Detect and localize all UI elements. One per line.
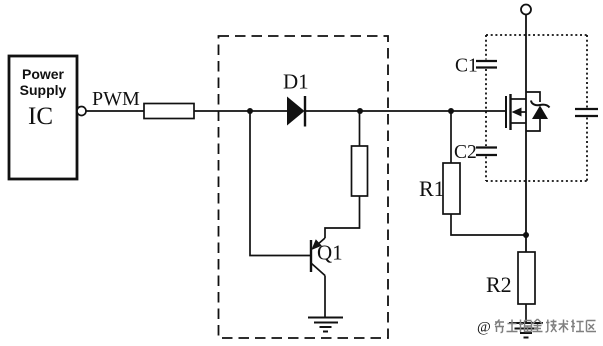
tu: [507, 320, 518, 332]
resistor (emitter pull, unlabeled): [352, 146, 368, 196]
wire R1 bottom to source node: [451, 214, 526, 235]
she: [571, 320, 584, 333]
watermark: [477, 319, 596, 336]
resistor R2: [518, 252, 535, 304]
terminal circle (drain supply): [521, 5, 531, 15]
transistor Q1 (PNP): [311, 238, 325, 276]
capacitor C1 (gate-drain): [476, 61, 497, 68]
ground (R2 bottom): [509, 323, 543, 338]
xi: [495, 320, 504, 333]
shu: [559, 320, 569, 333]
svg-text:R2: R2: [486, 272, 512, 297]
jue: [519, 320, 532, 333]
svg-text:@: @: [477, 320, 491, 336]
ground (Q1 collector): [308, 318, 343, 332]
svg-text:Supply: Supply: [20, 82, 67, 98]
wire resistor bottom to Q1 emitter: [325, 196, 360, 238]
jin: [533, 319, 543, 332]
qu: [587, 321, 597, 332]
node junction at emitter resistor branch: [357, 108, 363, 114]
body diode of MOSFET: [526, 92, 550, 131]
resistor R1: [443, 163, 460, 214]
wire junction down to resistor: [359, 111, 361, 146]
capacitor C2 (gate-source): [476, 148, 497, 156]
wire junction to R1: [450, 111, 452, 163]
wire main vertical drain-source: [525, 15, 527, 253]
resistor (PWM series, unlabeled): [144, 104, 194, 119]
wire Q1 collector to ground: [324, 276, 326, 318]
svg-text:R1: R1: [419, 176, 445, 201]
ji: [546, 320, 557, 333]
dashed box (driver stage): [219, 36, 389, 338]
dotted box (MOSFET package): [486, 35, 587, 181]
svg-text:PWM: PWM: [92, 88, 140, 110]
svg-text:Q1: Q1: [317, 241, 343, 265]
wire PWM pin to series resistor: [86, 110, 144, 112]
svg-text:D1: D1: [283, 70, 309, 94]
wire D1 cathode to MOSFET gate: [305, 110, 507, 112]
node junction at base branch: [247, 108, 253, 114]
node junction at R1 branch: [448, 108, 454, 114]
MOSFET Q (N-channel): [506, 94, 526, 130]
svg-text:Power: Power: [22, 66, 65, 82]
svg-text:C2: C2: [454, 142, 477, 163]
wire junction to Q1 base: [250, 111, 310, 256]
PWM output pin circle: [77, 107, 86, 116]
wire R2 to ground: [525, 304, 527, 323]
node junction source/R2: [523, 232, 529, 238]
diode D1: [287, 96, 305, 127]
wire resistor to diode D1 anode: [194, 110, 287, 112]
svg-text:IC: IC: [28, 103, 53, 130]
capacitor (drain-source, unlabeled): [575, 109, 598, 116]
svg-text:C1: C1: [455, 56, 478, 77]
Power Supply IC box: [9, 56, 77, 179]
